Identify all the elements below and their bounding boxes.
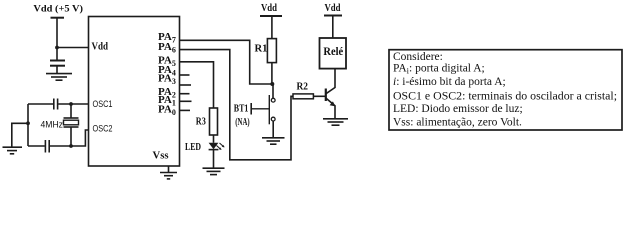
wire R3 to LED — [213, 135, 215, 143]
label R2 — [297, 82, 309, 93]
svg-text:Vss: alimentação, zero Volt.: Vss: alimentação, zero Volt. — [393, 117, 522, 129]
svg-text:Vdd: Vdd — [92, 41, 109, 53]
svg-text:Relé: Relé — [323, 44, 343, 58]
svg-text:4MHz: 4MHz — [41, 120, 64, 130]
pin label OSC1 — [93, 99, 113, 109]
switch BT1 (push-button NA) — [251, 95, 275, 124]
svg-text:R2: R2 — [297, 82, 309, 93]
pin label OSC2 — [93, 124, 113, 134]
pin stub PA1 — [180, 100, 192, 102]
legend line 1 — [393, 51, 443, 63]
ground (crystal) — [3, 147, 23, 154]
power bar (above R1) — [260, 15, 282, 17]
pin label PA3 — [158, 73, 176, 87]
svg-text:Considere:: Considere: — [393, 51, 443, 63]
capacitor C1 (decoupling) — [50, 61, 65, 74]
legend line 5 — [393, 103, 523, 115]
node ground tap — [26, 121, 30, 125]
resistor R1 — [267, 39, 276, 63]
pin stub PA4 — [180, 74, 190, 76]
relay K1 — [320, 38, 347, 69]
pin stub PA3 — [180, 84, 192, 86]
wire R1 to junction — [271, 63, 273, 84]
pin label PA4 — [158, 64, 176, 78]
label R3 — [196, 117, 206, 128]
ground (under C1) — [46, 74, 72, 81]
power label Vdd (above R1) — [261, 3, 277, 14]
pin stub PA2 — [180, 93, 190, 95]
svg-text:LED: Diodo emissor de luz;: LED: Diodo emissor de luz; — [393, 103, 523, 115]
legend line 6 — [393, 117, 522, 129]
value label 4MHz — [41, 120, 64, 130]
svg-text:Vdd (+5 V): Vdd (+5 V) — [33, 4, 83, 15]
wire R2 to base — [313, 95, 325, 97]
wire Vdd rail down — [56, 18, 58, 61]
svg-text:R1: R1 — [255, 44, 268, 55]
node crystal top — [69, 102, 73, 106]
label (NA) — [235, 117, 249, 128]
wire switch to ground — [272, 121, 274, 138]
svg-text:R3: R3 — [196, 117, 206, 128]
legend box Considere — [389, 50, 622, 130]
wire PA5 to R3 — [180, 62, 214, 108]
pin label PA0 — [158, 103, 176, 117]
wire bar to relay — [332, 16, 334, 39]
pin label Vss — [153, 150, 170, 162]
power bar (above relay) — [324, 15, 342, 17]
resistor R2 — [293, 94, 313, 99]
ground (LED) — [203, 168, 225, 174]
wire C3 to OSC2 pin — [50, 130, 89, 146]
svg-text:i: i-ésimo bit da porta A;: i: i-ésimo bit da porta A; — [393, 76, 506, 88]
ground (Vss) — [160, 173, 177, 179]
wire C2 to OSC1 pin — [58, 103, 88, 105]
svg-text:OSC2: OSC2 — [93, 124, 113, 134]
svg-text:Vdd: Vdd — [261, 3, 277, 14]
pin label PA7 — [158, 31, 176, 45]
wire OSC1 — [28, 103, 53, 105]
pin stub PA0 — [180, 109, 191, 111]
pin label PA1 — [158, 94, 176, 108]
capacitor C3 (OSC2) — [45, 140, 49, 153]
wire OSC2 — [28, 145, 45, 147]
svg-text:Vss: Vss — [153, 150, 170, 162]
IC U1 (microcontroller body) — [89, 17, 180, 167]
capacitor C2 (OSC1) — [54, 99, 58, 110]
resistor R3 — [210, 108, 218, 135]
svg-text:(NA): (NA) — [235, 117, 249, 128]
wire to crystal ground — [12, 123, 28, 147]
legend line 2 — [393, 62, 485, 75]
svg-text:BT1: BT1 — [234, 103, 249, 114]
wire PA6 to R2 — [180, 50, 294, 160]
svg-text:Vdd: Vdd — [325, 3, 341, 14]
wire bar to R1 — [271, 16, 273, 39]
legend line 3 — [393, 76, 506, 88]
transistor Q1 (NPN) — [326, 69, 336, 119]
svg-text:LED: LED — [185, 142, 201, 153]
ground (BT1) — [262, 138, 285, 144]
power label Vdd (+5 V) — [33, 4, 83, 15]
power bar Vdd (+5V) — [51, 17, 65, 19]
label R1 — [255, 44, 268, 55]
wire to IC Vdd pin — [57, 47, 89, 49]
wire left rail (caps common) — [27, 104, 29, 146]
legend line 4 — [393, 91, 617, 103]
label BT1 — [234, 103, 249, 114]
svg-text:OSC1 e OSC2: terminais do osci: OSC1 e OSC2: terminais do oscilador a cr… — [393, 91, 617, 103]
svg-text:OSC1: OSC1 — [93, 99, 113, 109]
node R1/BT1/PA7 junction — [270, 82, 274, 86]
pin label PA5 — [158, 55, 176, 69]
wire PA7 to R1/BT1 junction — [180, 40, 274, 84]
power label Vdd (above relay) — [325, 3, 341, 14]
label Relé — [323, 44, 343, 58]
pin label PA2 — [158, 86, 176, 100]
pin label Vdd (IC) — [92, 41, 109, 53]
wire junction to switch — [272, 84, 274, 98]
ground (emitter) — [323, 119, 348, 125]
label LED — [185, 142, 201, 153]
node crystal bottom — [69, 144, 73, 148]
wire Vss to ground — [168, 166, 170, 173]
crystal XT1 4MHz — [64, 104, 79, 146]
node Vdd junction — [55, 46, 59, 50]
wire LED to ground — [213, 150, 215, 168]
pin label PA6 — [158, 41, 176, 55]
LED D1 — [209, 143, 225, 150]
